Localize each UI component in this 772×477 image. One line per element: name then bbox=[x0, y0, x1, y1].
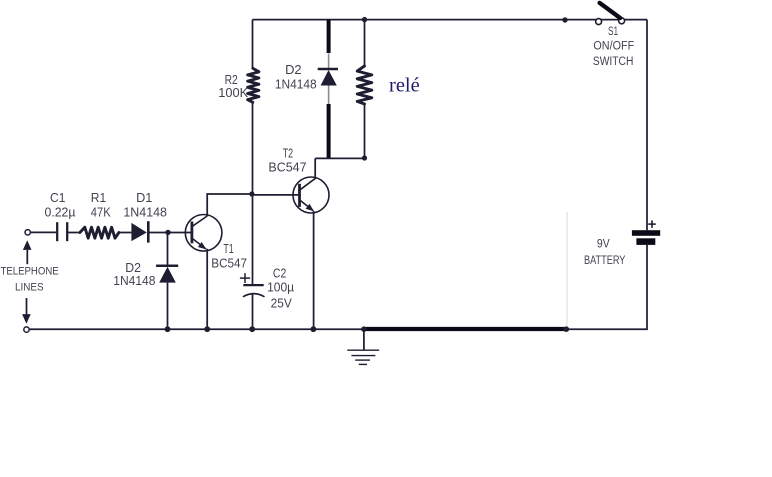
svg-text:ON/OFF: ON/OFF bbox=[593, 41, 634, 53]
svg-text:relé: relé bbox=[389, 75, 420, 97]
battery B1 bbox=[632, 220, 660, 245]
wire T1 collector bbox=[207, 194, 252, 216]
resistor R2 bbox=[248, 68, 259, 102]
arrow down telephone bbox=[22, 298, 31, 324]
capacitor C2 bbox=[240, 273, 265, 329]
svg-text:BC547: BC547 bbox=[211, 256, 247, 270]
relay coil bbox=[357, 66, 372, 104]
wire T2 base bbox=[252, 194, 300, 196]
svg-text:C1: C1 bbox=[50, 191, 65, 205]
wire D1 to node bbox=[148, 232, 168, 234]
wire input top bbox=[30, 231, 57, 233]
diode D2 upper thick bar top lead bbox=[327, 20, 331, 53]
faint artifact line bbox=[566, 212, 568, 328]
svg-text:BATTERY: BATTERY bbox=[584, 255, 626, 267]
node thick end bbox=[564, 326, 570, 332]
wire relay top lead bbox=[364, 20, 366, 66]
svg-text:R1: R1 bbox=[91, 191, 106, 205]
svg-text:C2: C2 bbox=[273, 266, 286, 280]
node ground rail bbox=[361, 326, 367, 332]
diode D1 bbox=[131, 221, 148, 242]
wire D2 lower to rail bbox=[167, 283, 169, 330]
terminal upper bbox=[25, 230, 30, 235]
wire node down to D2 lower bbox=[167, 233, 169, 266]
wire R1 to D1 bbox=[119, 232, 131, 234]
svg-text:BC547: BC547 bbox=[268, 161, 306, 175]
svg-text:D2: D2 bbox=[125, 261, 141, 275]
node relay bottom bbox=[362, 155, 367, 160]
svg-text:S1: S1 bbox=[608, 26, 618, 38]
wire top rail bbox=[252, 19, 647, 21]
svg-text:1N4148: 1N4148 bbox=[123, 205, 167, 219]
diode D2 upper symbol bbox=[318, 69, 338, 86]
transistor T1 bbox=[185, 215, 222, 252]
diode D2 upper gray lead bbox=[328, 54, 330, 69]
node D1 out bbox=[165, 230, 170, 235]
wire right vertical lower bbox=[566, 245, 647, 329]
transistor T2 bbox=[293, 177, 329, 213]
wire right vertical upper bbox=[646, 20, 648, 231]
svg-text:R2: R2 bbox=[225, 73, 238, 87]
node D2 rail bbox=[165, 326, 171, 332]
svg-text:9V: 9V bbox=[597, 239, 610, 251]
switch S1 bbox=[596, 3, 625, 25]
capacitor C1 bbox=[57, 222, 67, 241]
arrow up telephone bbox=[23, 240, 32, 264]
wire R2 bottom to junction bbox=[252, 102, 254, 194]
wire bottom rail thick bbox=[365, 327, 566, 331]
svg-text:T1: T1 bbox=[223, 242, 233, 256]
svg-text:D2: D2 bbox=[285, 63, 302, 77]
svg-text:25V: 25V bbox=[271, 297, 293, 311]
wire C1 to R1 bbox=[67, 232, 80, 234]
diode D2 upper thick bar bottom lead bbox=[327, 104, 331, 158]
wire bottom rail thin bbox=[29, 328, 366, 330]
svg-text:LINES: LINES bbox=[15, 282, 44, 294]
diode D2 lower bbox=[156, 266, 178, 283]
wire T2 collector horizontal bbox=[315, 157, 364, 159]
node relay top bbox=[362, 17, 367, 22]
ground bbox=[347, 329, 379, 364]
wire node to T1 base bbox=[168, 232, 192, 234]
node T2 emitter rail bbox=[311, 326, 317, 332]
node junction R2/T1 collector/T2 base bbox=[249, 191, 254, 196]
node T1 emitter rail bbox=[204, 326, 210, 332]
node C2 rail bbox=[249, 326, 255, 332]
svg-text:100µ: 100µ bbox=[267, 281, 294, 295]
svg-text:0.22µ: 0.22µ bbox=[45, 205, 76, 219]
wire junction down to C2 bbox=[252, 194, 254, 285]
terminal lower bbox=[24, 327, 29, 332]
wire T1 emitter down bbox=[206, 249, 208, 329]
wire T2 emitter down bbox=[313, 211, 315, 329]
wire relay bottom lead bbox=[364, 104, 366, 158]
svg-text:SWITCH: SWITCH bbox=[593, 56, 634, 68]
svg-text:TELEPHONE: TELEPHONE bbox=[1, 265, 59, 277]
svg-text:100K: 100K bbox=[218, 86, 249, 100]
diode D2 upper gray lead lower bbox=[328, 86, 330, 105]
resistor R1 bbox=[80, 227, 119, 238]
svg-text:47K: 47K bbox=[91, 205, 111, 219]
svg-text:1N4148: 1N4148 bbox=[275, 78, 317, 92]
node switch feed bbox=[562, 17, 567, 22]
svg-text:1N4148: 1N4148 bbox=[113, 274, 155, 288]
wire T2 collector vertical bbox=[314, 158, 316, 178]
svg-text:D1: D1 bbox=[136, 191, 152, 205]
svg-text:T2: T2 bbox=[283, 146, 293, 160]
wire left branch vertical (R2 branch) bbox=[252, 20, 254, 69]
